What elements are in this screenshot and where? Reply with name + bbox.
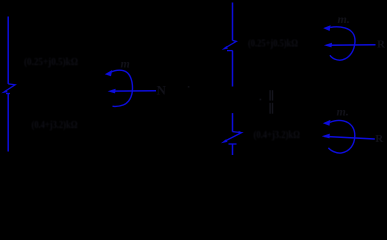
wire W2 segment 2 (middle conductor) <box>232 51 234 87</box>
current source CS3 circular arrow (open left, arrowhead at top-left) <box>323 120 355 153</box>
svg-text:m: m <box>121 57 130 71</box>
svg-text:R: R <box>377 39 386 51</box>
wire W1 lower segment (left conductor) <box>7 94 9 152</box>
svg-text:(0.25+j0.5)kΩ: (0.25+j0.5)kΩ <box>24 56 78 68</box>
current source CS1 circular arrow (open left, arrowhead at top-left) <box>105 70 133 106</box>
wire W2 segment 4 (middle conductor bottom) <box>232 144 234 155</box>
wire W1 upper segment (left conductor) <box>7 17 9 84</box>
wire W2 segment 3 (middle conductor) <box>232 113 234 132</box>
wire W2 segment 1 (middle conductor top) <box>232 3 234 41</box>
CS3 output line with arrow <box>322 134 375 139</box>
transformer coupling bars (dark) <box>260 90 274 114</box>
break/current arrow on wire W1 <box>1 84 15 94</box>
svg-text:R: R <box>375 133 384 145</box>
svg-text:N: N <box>157 83 167 98</box>
svg-text:m.: m. <box>337 105 349 119</box>
CS1 output line with arrow <box>108 89 156 94</box>
stray mark <box>188 86 190 88</box>
break/current arrow 1 on wire W2 <box>222 40 237 50</box>
current source CS2 circular arrow (open left, arrowhead at top-left) <box>323 25 355 60</box>
break/current arrow 2 on wire W2 <box>221 131 243 144</box>
svg-text:(0.4+j3.2)kΩ: (0.4+j3.2)kΩ <box>32 119 78 131</box>
CS2 output line with arrow <box>324 43 376 48</box>
svg-text:(0.25+j0.5)kΩ: (0.25+j0.5)kΩ <box>248 38 298 50</box>
svg-text:(0.4+j3.2)kΩ: (0.4+j3.2)kΩ <box>254 129 301 141</box>
svg-text:m.: m. <box>338 12 350 26</box>
